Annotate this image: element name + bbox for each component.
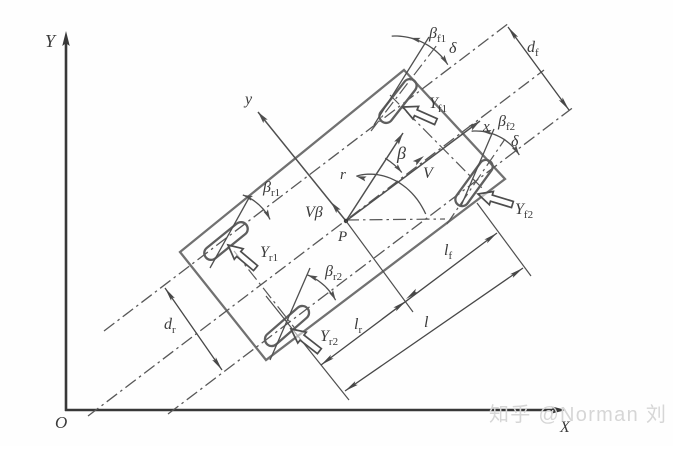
velocity V vector (steep arrow) <box>346 133 403 221</box>
point P dot <box>344 219 348 223</box>
lateral force arrow Y_f2 <box>476 187 514 211</box>
svg-text:P: P <box>337 229 347 245</box>
svg-text:知乎 @Norman 刘: 知乎 @Norman 刘 <box>489 403 667 426</box>
slip angle arc beta_f2 + delta <box>472 131 520 155</box>
svg-text:O: O <box>55 413 67 432</box>
lateral force arrow Y_f1 <box>400 101 439 128</box>
slip angle arc beta_r2 <box>308 275 336 300</box>
svg-text:l: l <box>424 314 429 331</box>
lateral force arrow Y_r2 <box>287 324 324 357</box>
lateral velocity V*beta arrowhead <box>329 200 341 213</box>
rear axle line <box>234 251 297 331</box>
dimension l <box>345 268 523 391</box>
extension line through P (perpendicular) <box>346 221 413 312</box>
wheel r1 (rear left) <box>202 219 251 262</box>
svg-text:δ: δ <box>511 133 519 150</box>
wheel f1 velocity line <box>374 37 429 125</box>
wheel r1 velocity line <box>210 196 250 268</box>
wheel f2 velocity line <box>461 129 494 206</box>
sideslip angle beta arc <box>385 158 402 172</box>
svg-text:Vβ: Vβ <box>305 204 323 221</box>
horizontal reference line at P <box>346 219 445 220</box>
double arrows at P extension (l_r | l_f) <box>393 299 407 311</box>
svg-text:y: y <box>243 91 253 108</box>
front axle line <box>390 95 484 190</box>
wheel r2 (rear right) <box>262 303 312 349</box>
left wheels center line (r1-f1) <box>104 23 509 331</box>
Y axis <box>65 38 68 411</box>
wheel f2 heading line <box>447 139 505 224</box>
X axis <box>65 409 559 412</box>
front extension line <box>477 203 531 276</box>
vehicle body <box>180 70 505 360</box>
slip angle arc beta_r1 <box>243 195 270 220</box>
dimension d_f <box>508 27 569 110</box>
svg-text:δ: δ <box>449 40 457 57</box>
rear extension line <box>266 296 349 400</box>
svg-text:β: β <box>396 143 406 163</box>
slip angle arc beta_f1 + delta <box>392 36 448 65</box>
y axis from P <box>258 112 346 221</box>
wheel f1 (front left) <box>377 76 420 125</box>
svg-text:r: r <box>340 167 346 183</box>
wheel r2 velocity line <box>270 268 310 360</box>
vehicle centerline <box>88 70 544 416</box>
wheel f1 heading line <box>371 45 437 131</box>
x-axis / V ray from P <box>346 121 480 221</box>
svg-text:x: x <box>482 119 490 135</box>
dimension d_r <box>165 288 222 370</box>
yaw rate r arc <box>356 174 425 214</box>
wheel f2 (front right) <box>453 157 496 209</box>
lateral force arrow Y_r1 <box>224 240 260 274</box>
dimension line l_r / l_f <box>321 233 497 365</box>
right wheels center line (r2-f2) <box>168 106 575 414</box>
